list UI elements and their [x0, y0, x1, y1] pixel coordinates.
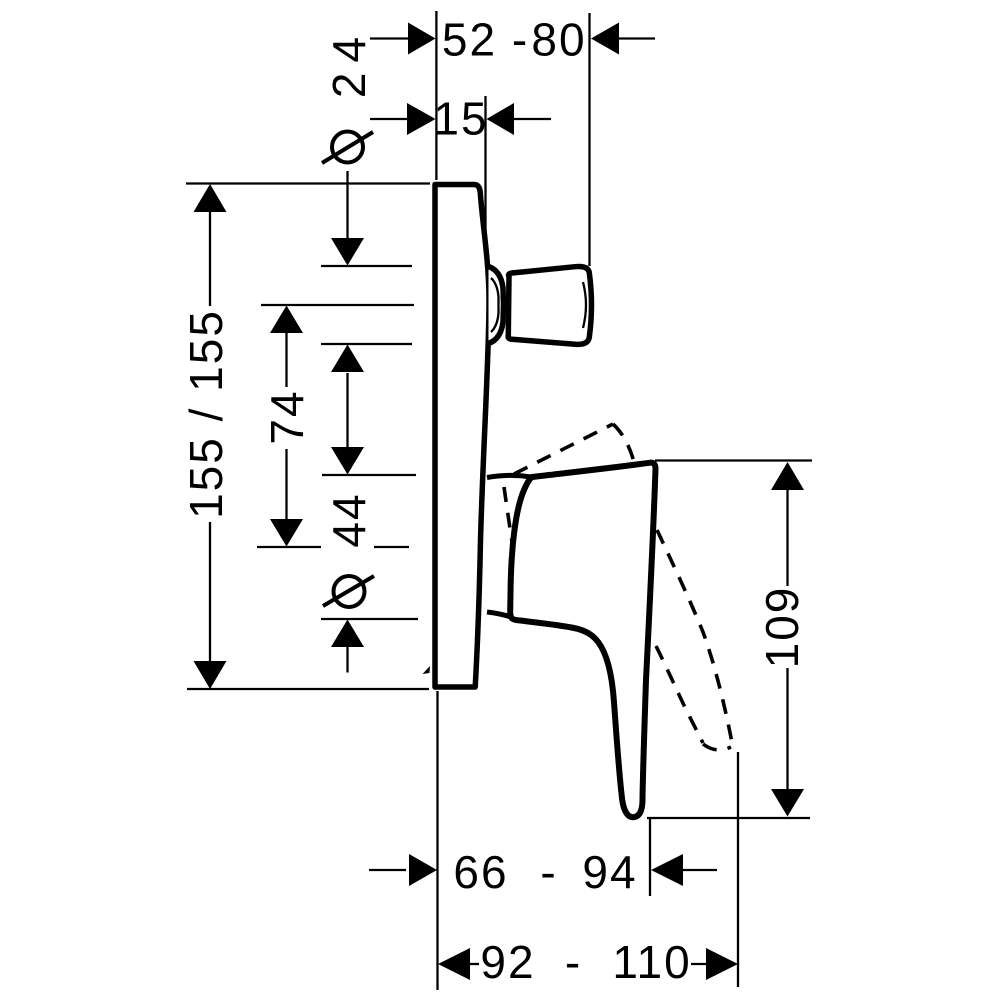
svg-text:15: 15 [433, 93, 488, 145]
arrowhead O44 top (points down) [331, 447, 364, 475]
arrowhead 66-94 left (points right) [409, 854, 437, 886]
extension line top of O44 [322, 474, 416, 476]
svg-text:-: - [512, 14, 529, 66]
arrowhead 15 left [407, 103, 436, 135]
dim 52-80 line [370, 37, 408, 39]
svg-text:-: - [565, 936, 582, 988]
dim O24 line [346, 171, 348, 238]
arrowhead 109 top (points up) [771, 462, 804, 490]
dim 66-94 line [369, 869, 406, 871]
arrowhead 74 bottom [270, 519, 303, 547]
extension line bottom of 155 [187, 688, 429, 690]
extension line right of 92-110 [737, 752, 739, 987]
extension line left of 66-94 and 92-110 [436, 691, 438, 990]
dim 74 line [285, 333, 287, 387]
svg-text:74: 74 [261, 389, 313, 444]
arrowhead 109 bottom (points down) [771, 789, 804, 817]
extension line bottom of 74 [257, 546, 321, 548]
arrowhead O24 bottom (points up) [331, 345, 364, 373]
dashed tip cap [703, 744, 731, 750]
lever handle (side view, closed position) [510, 463, 655, 818]
dim O44 tail [346, 646, 348, 673]
dim 15 line [370, 118, 407, 120]
extension line top of O24 [321, 265, 412, 267]
arrowhead O44 bottom (points up) [331, 620, 364, 648]
dashed hub left edge [504, 487, 513, 549]
valve sleeve top edge [487, 475, 531, 477]
extension line bottom of O44 [321, 618, 418, 620]
arrowhead O24 top (points down) [331, 238, 364, 266]
knob neck trim ring [489, 267, 504, 344]
extension line right of 66-94 [649, 818, 651, 896]
dashed top edge [514, 424, 613, 474]
svg-text:80: 80 [531, 14, 586, 66]
arrowhead 92-110 right (points right) [706, 948, 738, 980]
svg-text:92: 92 [480, 936, 535, 988]
escutcheon plate (side view) [435, 185, 489, 688]
svg-text:66: 66 [453, 846, 508, 898]
arrowhead 92-110 left (points left) [438, 948, 470, 980]
svg-text:-: - [540, 846, 557, 898]
arrowhead 155 bottom [194, 661, 227, 689]
arrowhead 155 top [194, 184, 227, 212]
extension line right of dim 52-80 [588, 13, 590, 266]
extension line right of dim 15 [484, 96, 486, 258]
arrowhead 52-80 left [408, 23, 436, 55]
extension line top of 155 [186, 182, 430, 184]
svg-text:44: 44 [323, 492, 375, 547]
diameter symbol for 44 [323, 576, 374, 607]
valve sleeve bottom edge [487, 612, 511, 617]
svg-text:109: 109 [756, 586, 808, 669]
dashed outer tail edge [657, 530, 733, 748]
extension line top of 109 [655, 459, 812, 461]
svg-text:94: 94 [582, 846, 637, 898]
svg-text:52: 52 [442, 14, 497, 66]
extension line left of dim 52-80 [435, 11, 437, 180]
svg-text:155 / 155: 155 / 155 [180, 309, 232, 519]
svg-text:110: 110 [612, 936, 691, 988]
arrowhead 74 top [270, 306, 303, 334]
diameter symbol for 24 [322, 132, 373, 164]
dashed raised-position handle outline [504, 424, 733, 750]
extension line bottom of 109 [647, 817, 810, 819]
extension line top of 74 [261, 304, 414, 306]
arrowhead 66-94 right (points left) [651, 854, 683, 886]
dim 109 line [786, 490, 788, 586]
svg-text:24: 24 [323, 27, 375, 98]
dim 155 line [209, 212, 211, 306]
extension line bottom of O24 [321, 343, 412, 345]
arrowhead 15 right [487, 103, 515, 135]
temperature knob (side view) [508, 266, 591, 344]
dashed inner tail edge [656, 646, 703, 743]
dim 92-110 line [466, 963, 479, 965]
dashed end corner [613, 424, 634, 462]
tiny mark near plate bottom corner [423, 666, 431, 674]
arrowhead 52-80 right [591, 23, 619, 55]
